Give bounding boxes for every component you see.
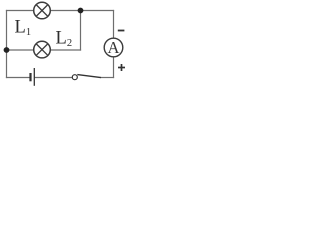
svg-text:A: A (108, 38, 120, 57)
